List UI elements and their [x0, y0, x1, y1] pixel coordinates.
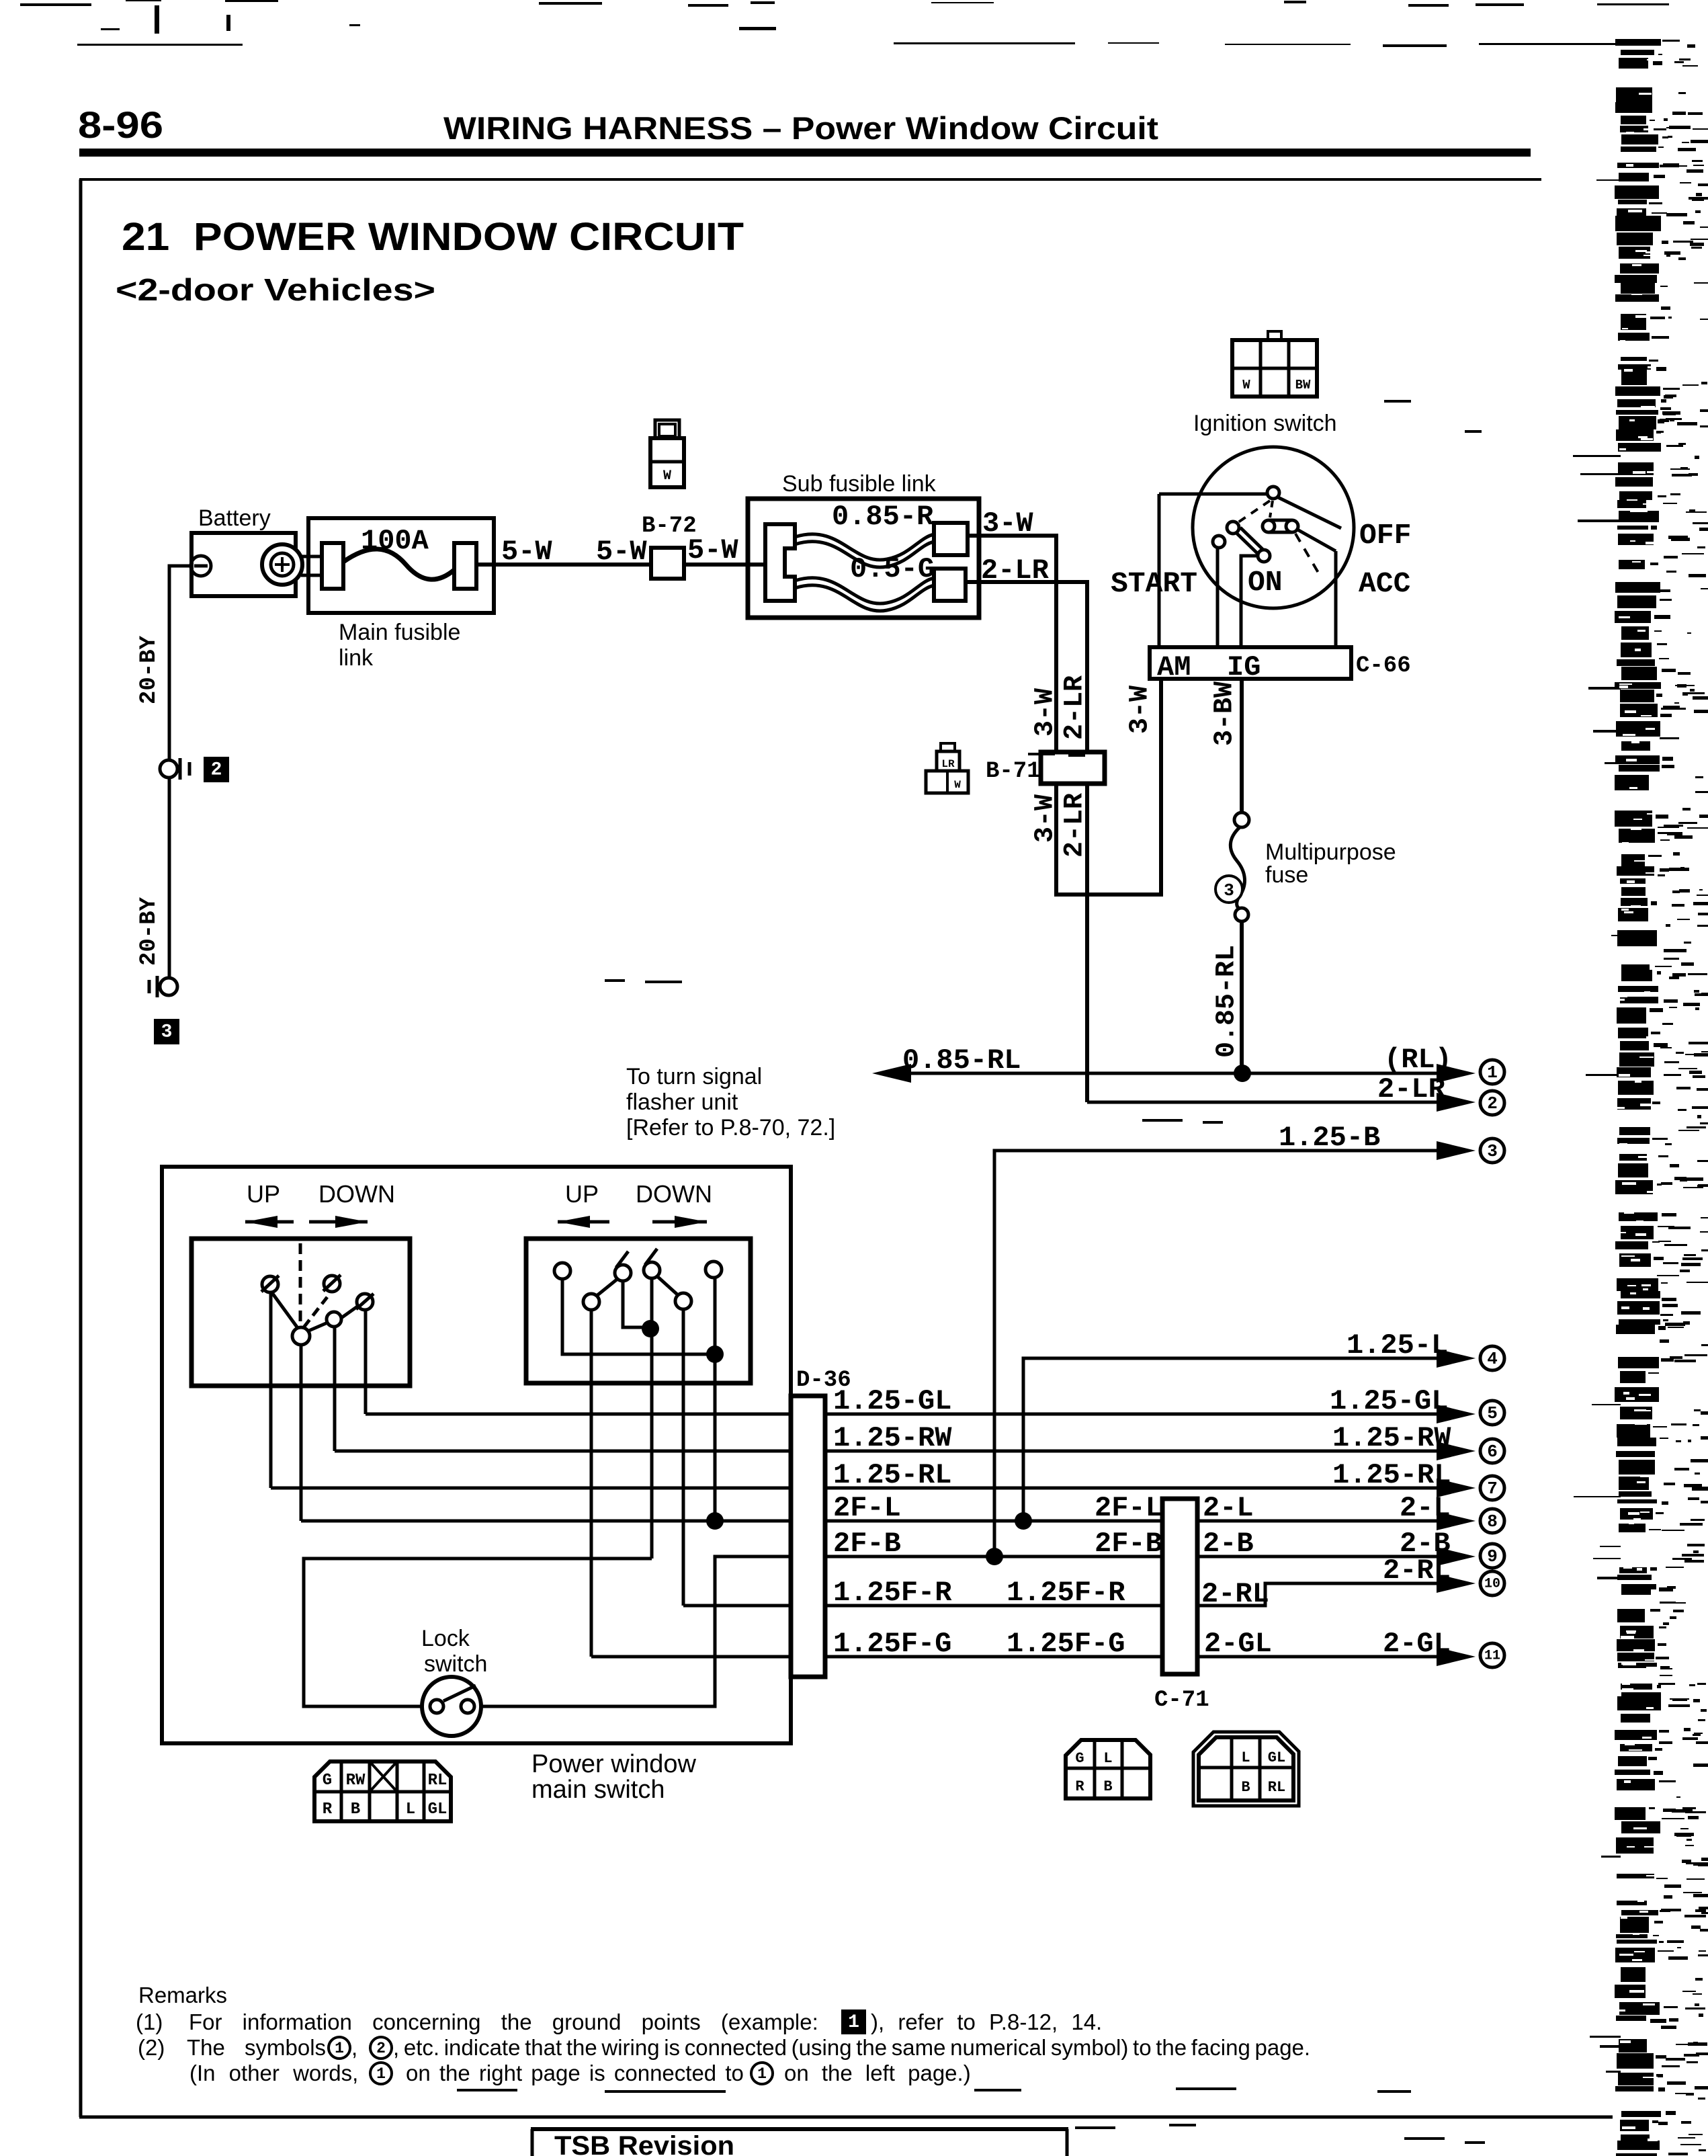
svg-text:link: link — [339, 645, 374, 671]
svg-text:Main fusible: Main fusible — [339, 620, 460, 645]
svg-text:<2-door Vehicles>: <2-door Vehicles> — [116, 272, 435, 307]
OFF contact line — [1278, 497, 1341, 528]
svg-text:switch: switch — [424, 1651, 487, 1677]
svg-text:6: 6 — [1487, 1442, 1498, 1462]
svg-text:5-W: 5-W — [687, 534, 738, 567]
wire battery negative to ground run — [169, 566, 191, 978]
ignition contacts — [1267, 487, 1279, 499]
svg-text:W: W — [1242, 378, 1250, 392]
svg-text:0.85-R: 0.85-R — [832, 501, 934, 533]
svg-text:Remarks: Remarks — [138, 1983, 227, 2007]
wire 3-W : sub link to C-66 AM — [968, 536, 1161, 895]
svg-text:Sub fusible link: Sub fusible link — [782, 471, 937, 497]
wire 1.25-B arrow 3 — [994, 1151, 1451, 1557]
svg-text:4: 4 — [1487, 1349, 1498, 1369]
connector icon above B-72 — [655, 420, 679, 440]
lock switch wiring left — [304, 1559, 652, 1706]
svg-text:2-LR: 2-LR — [1060, 675, 1091, 740]
svg-text:3-W: 3-W — [1125, 686, 1156, 734]
svg-text:C-71: C-71 — [1154, 1688, 1209, 1713]
wire 1.25-L arrow 4 — [1023, 1358, 1451, 1521]
battery positive terminal — [262, 544, 302, 585]
svg-text:START: START — [1111, 567, 1197, 600]
svg-text:main switch: main switch — [531, 1776, 665, 1804]
ground 2 — [160, 760, 177, 778]
svg-text:2F-B: 2F-B — [1095, 1528, 1162, 1560]
left switch box (driver) — [191, 1239, 410, 1386]
svg-text:on the right page is connected: on the right page is connected to — [406, 2061, 744, 2085]
svg-text:L: L — [1103, 1750, 1112, 1767]
svg-text:8-96: 8-96 — [78, 103, 163, 146]
right switch contacts — [554, 1263, 570, 1279]
wire 1.25F-G / 2-GL arrow 11 — [825, 1655, 1162, 1659]
svg-text:R: R — [1075, 1778, 1084, 1795]
wire 2F-B / 2-B arrow 9 — [825, 1555, 1162, 1559]
svg-text:ON: ON — [1248, 566, 1283, 599]
svg-text:5-W: 5-W — [501, 536, 552, 568]
svg-text:(In other words,: (In other words, — [189, 2061, 358, 2085]
diagram border frame — [79, 178, 1541, 181]
fuse element 0.85-R — [795, 534, 934, 560]
svg-text:1.25F-G: 1.25F-G — [833, 1628, 951, 1660]
svg-text:(1): (1) — [136, 2009, 163, 2034]
svg-text:), refer to P.8-12, 14.: ), refer to P.8-12, 14. — [871, 2009, 1102, 2034]
svg-text:2-L: 2-L — [1203, 1492, 1254, 1524]
svg-text:2-RL: 2-RL — [1383, 1554, 1451, 1587]
svg-text:1.25-GL: 1.25-GL — [833, 1385, 951, 1417]
svg-text:0.85-RL: 0.85-RL — [1212, 945, 1242, 1058]
svg-text:DOWN: DOWN — [318, 1180, 395, 1208]
wire 2-LR arrow 2 — [1087, 1101, 1451, 1104]
svg-text:2-RL: 2-RL — [1201, 1578, 1269, 1610]
svg-text:,: , — [351, 2035, 357, 2060]
svg-text:8: 8 — [1487, 1511, 1498, 1532]
svg-text:1.25F-R: 1.25F-R — [833, 1577, 952, 1609]
svg-text:B-71: B-71 — [986, 759, 1041, 784]
svg-text:fuse: fuse — [1265, 862, 1308, 888]
main switch connector pin diagram — [314, 1761, 451, 1821]
svg-text:2: 2 — [1487, 1093, 1498, 1114]
svg-text:7: 7 — [1487, 1479, 1498, 1499]
svg-text:Ignition switch: Ignition switch — [1193, 411, 1337, 436]
rows from switches to D-36 — [366, 1413, 791, 1416]
svg-text:C-66: C-66 — [1356, 653, 1411, 679]
svg-text:BW: BW — [1295, 378, 1311, 392]
ignition switch connector icon — [1268, 331, 1281, 340]
svg-text:1.25-GL: 1.25-GL — [1330, 1385, 1448, 1417]
wire 2F-L / 2-L arrow 8 — [825, 1520, 1162, 1523]
svg-text:To turn signal: To turn signal — [626, 1064, 762, 1089]
svg-text:For information concerning the: For information concerning the ground po… — [189, 2009, 818, 2034]
wire 0.85-RL to turn signal flasher and arrow 1 — [894, 1072, 1451, 1075]
svg-text:3: 3 — [161, 1022, 173, 1043]
svg-text:TSB Revision: TSB Revision — [554, 2131, 734, 2156]
wire 2-LR : sub link down to facing-page arrow 2 — [966, 582, 1087, 1102]
svg-text:on the left page.): on the left page.) — [784, 2061, 971, 2085]
svg-text:Lock: Lock — [421, 1626, 470, 1651]
svg-text:20-BY: 20-BY — [136, 635, 162, 704]
svg-text:3-BW: 3-BW — [1210, 681, 1240, 746]
svg-text:1: 1 — [1487, 1063, 1498, 1083]
svg-text:B: B — [351, 1800, 360, 1819]
svg-text:2: 2 — [376, 2040, 386, 2057]
svg-text:OFF: OFF — [1359, 519, 1411, 552]
svg-text:L: L — [406, 1800, 415, 1819]
TSB revision box — [531, 2127, 1068, 2131]
svg-text:20-BY: 20-BY — [136, 897, 162, 966]
svg-text:3: 3 — [1487, 1141, 1498, 1161]
wire main fusible link to sub fusible link 5-W — [474, 563, 767, 567]
svg-text:flasher unit: flasher unit — [626, 1089, 738, 1115]
svg-text:5-W: 5-W — [596, 536, 647, 568]
svg-text:L: L — [1241, 1749, 1250, 1766]
rotor arm (double line) — [1236, 532, 1258, 554]
svg-text:10: 10 — [1484, 1577, 1500, 1592]
connector icon beside B-71 — [941, 743, 955, 752]
wire 1.25-GL arrow 5 — [825, 1413, 1451, 1416]
svg-text:WIRING HARNESS – Power Window: WIRING HARNESS – Power Window Circuit — [443, 110, 1158, 146]
svg-text:UP: UP — [247, 1180, 280, 1208]
svg-text:LR: LR — [941, 758, 955, 770]
wire 1.25-RW arrow 6 — [825, 1450, 1451, 1453]
svg-text:W: W — [663, 468, 671, 484]
connector C-71 — [1162, 1499, 1197, 1674]
svg-text:3: 3 — [1224, 880, 1234, 901]
connector C-66 — [1150, 647, 1351, 679]
svg-text:Power window: Power window — [531, 1750, 697, 1778]
svg-text:2-B: 2-B — [1203, 1528, 1254, 1560]
right switch wires down — [650, 1278, 654, 1559]
svg-text:G: G — [1075, 1750, 1084, 1767]
svg-text:1.25-B: 1.25-B — [1279, 1122, 1380, 1154]
svg-text:2-L: 2-L — [1400, 1492, 1451, 1524]
ACC contact line — [1297, 530, 1336, 551]
svg-text:, etc. indicate that the wirin: , etc. indicate that the wiring is conne… — [393, 2035, 1310, 2060]
svg-text:GL: GL — [1268, 1749, 1285, 1766]
fuse element 100A — [322, 543, 343, 589]
wire 1.25F-R / 2-RL arrow 10 — [825, 1604, 1162, 1608]
svg-text:(RL): (RL) — [1384, 1044, 1452, 1076]
svg-text:11: 11 — [1484, 1649, 1500, 1664]
svg-text:1.25-RW: 1.25-RW — [833, 1422, 952, 1454]
svg-text:Battery: Battery — [198, 505, 271, 531]
svg-text:2F-L: 2F-L — [1095, 1492, 1162, 1524]
svg-text:[Refer to P.8-70, 72.]: [Refer to P.8-70, 72.] — [626, 1115, 835, 1141]
svg-text:5: 5 — [1487, 1403, 1498, 1423]
svg-text:3-W: 3-W — [1031, 688, 1061, 737]
svg-text:1: 1 — [335, 2040, 344, 2057]
svg-text:2-LR: 2-LR — [1060, 793, 1091, 858]
svg-text:2F-B: 2F-B — [833, 1528, 901, 1560]
dashed position indicators — [1238, 501, 1270, 522]
svg-text:1: 1 — [376, 2065, 386, 2083]
svg-text:ACC: ACC — [1359, 567, 1410, 600]
right switch internal wiring — [623, 1281, 650, 1327]
battery — [191, 533, 296, 596]
ground 3 — [160, 978, 177, 995]
header rule — [79, 149, 1531, 157]
svg-text:B-72: B-72 — [642, 513, 697, 539]
svg-text:1.25F-G: 1.25F-G — [1007, 1628, 1125, 1660]
ignition switch wiring — [1159, 493, 1267, 496]
svg-text:UP: UP — [565, 1180, 599, 1208]
svg-text:1.25-RL: 1.25-RL — [1332, 1459, 1451, 1491]
multipurpose fuse — [1234, 813, 1249, 827]
svg-text:1.25-L: 1.25-L — [1347, 1329, 1448, 1362]
lock switch — [422, 1677, 481, 1736]
svg-text:2: 2 — [211, 760, 222, 781]
capsule contact — [1263, 520, 1275, 532]
svg-text:B: B — [1241, 1779, 1250, 1796]
svg-text:1.25F-R: 1.25F-R — [1007, 1577, 1125, 1609]
sub fusible link box — [748, 499, 979, 618]
ignition switch circle — [1193, 447, 1354, 608]
svg-text:1.25-RL: 1.25-RL — [833, 1459, 951, 1491]
svg-text:1: 1 — [757, 2065, 767, 2083]
wire battery to main fusible link (double) — [301, 555, 324, 558]
svg-text:2F-L: 2F-L — [833, 1492, 901, 1524]
fuse element 0.5-G — [795, 578, 934, 604]
svg-text:(2): (2) — [138, 2035, 165, 2060]
svg-text:R: R — [323, 1800, 333, 1819]
svg-text:IG: IG — [1227, 651, 1261, 683]
svg-text:GL: GL — [428, 1800, 447, 1819]
svg-text:2-GL: 2-GL — [1383, 1628, 1451, 1660]
svg-text:3-W: 3-W — [1031, 794, 1061, 843]
sub fusible link left terminal — [765, 524, 795, 601]
svg-text:Multipurpose: Multipurpose — [1265, 839, 1396, 865]
D-36 pin diagram — [1066, 1740, 1150, 1798]
svg-text:2-GL: 2-GL — [1204, 1628, 1272, 1660]
main fusible link box — [308, 518, 494, 613]
svg-text:W: W — [954, 779, 961, 791]
left switch contacts — [271, 1291, 300, 1331]
lock switch wiring right to 2F-B — [480, 1557, 791, 1706]
svg-text:1.25-RW: 1.25-RW — [1332, 1422, 1451, 1454]
svg-text:RW: RW — [346, 1772, 366, 1790]
svg-text:0.5-G: 0.5-G — [850, 553, 935, 585]
svg-text:AM: AM — [1157, 651, 1191, 683]
left switch wires down — [269, 1292, 273, 1488]
svg-text:DOWN: DOWN — [636, 1180, 712, 1208]
svg-text:B: B — [1103, 1778, 1112, 1795]
wire 1.25-RL arrow 7 — [825, 1487, 1451, 1490]
wires below C-66 — [1240, 679, 1244, 813]
svg-text:RL: RL — [1268, 1779, 1285, 1796]
svg-text:RL: RL — [428, 1772, 447, 1790]
svg-text:The symbols: The symbols — [187, 2035, 326, 2060]
right switch box (passenger) — [526, 1239, 751, 1383]
wire 0.85-RL below fuse — [1240, 921, 1244, 1073]
svg-text:21 POWER WINDOW CIRCUIT: 21 POWER WINDOW CIRCUIT — [122, 215, 744, 259]
power window main switch outer box — [162, 1167, 791, 1743]
C-71 pin diagram — [1199, 1737, 1293, 1800]
svg-text:1: 1 — [848, 2012, 859, 2033]
svg-text:0.85-RL: 0.85-RL — [902, 1044, 1021, 1077]
svg-text:9: 9 — [1487, 1546, 1498, 1567]
svg-text:2-LR: 2-LR — [1377, 1073, 1446, 1106]
svg-text:G: G — [323, 1772, 332, 1790]
